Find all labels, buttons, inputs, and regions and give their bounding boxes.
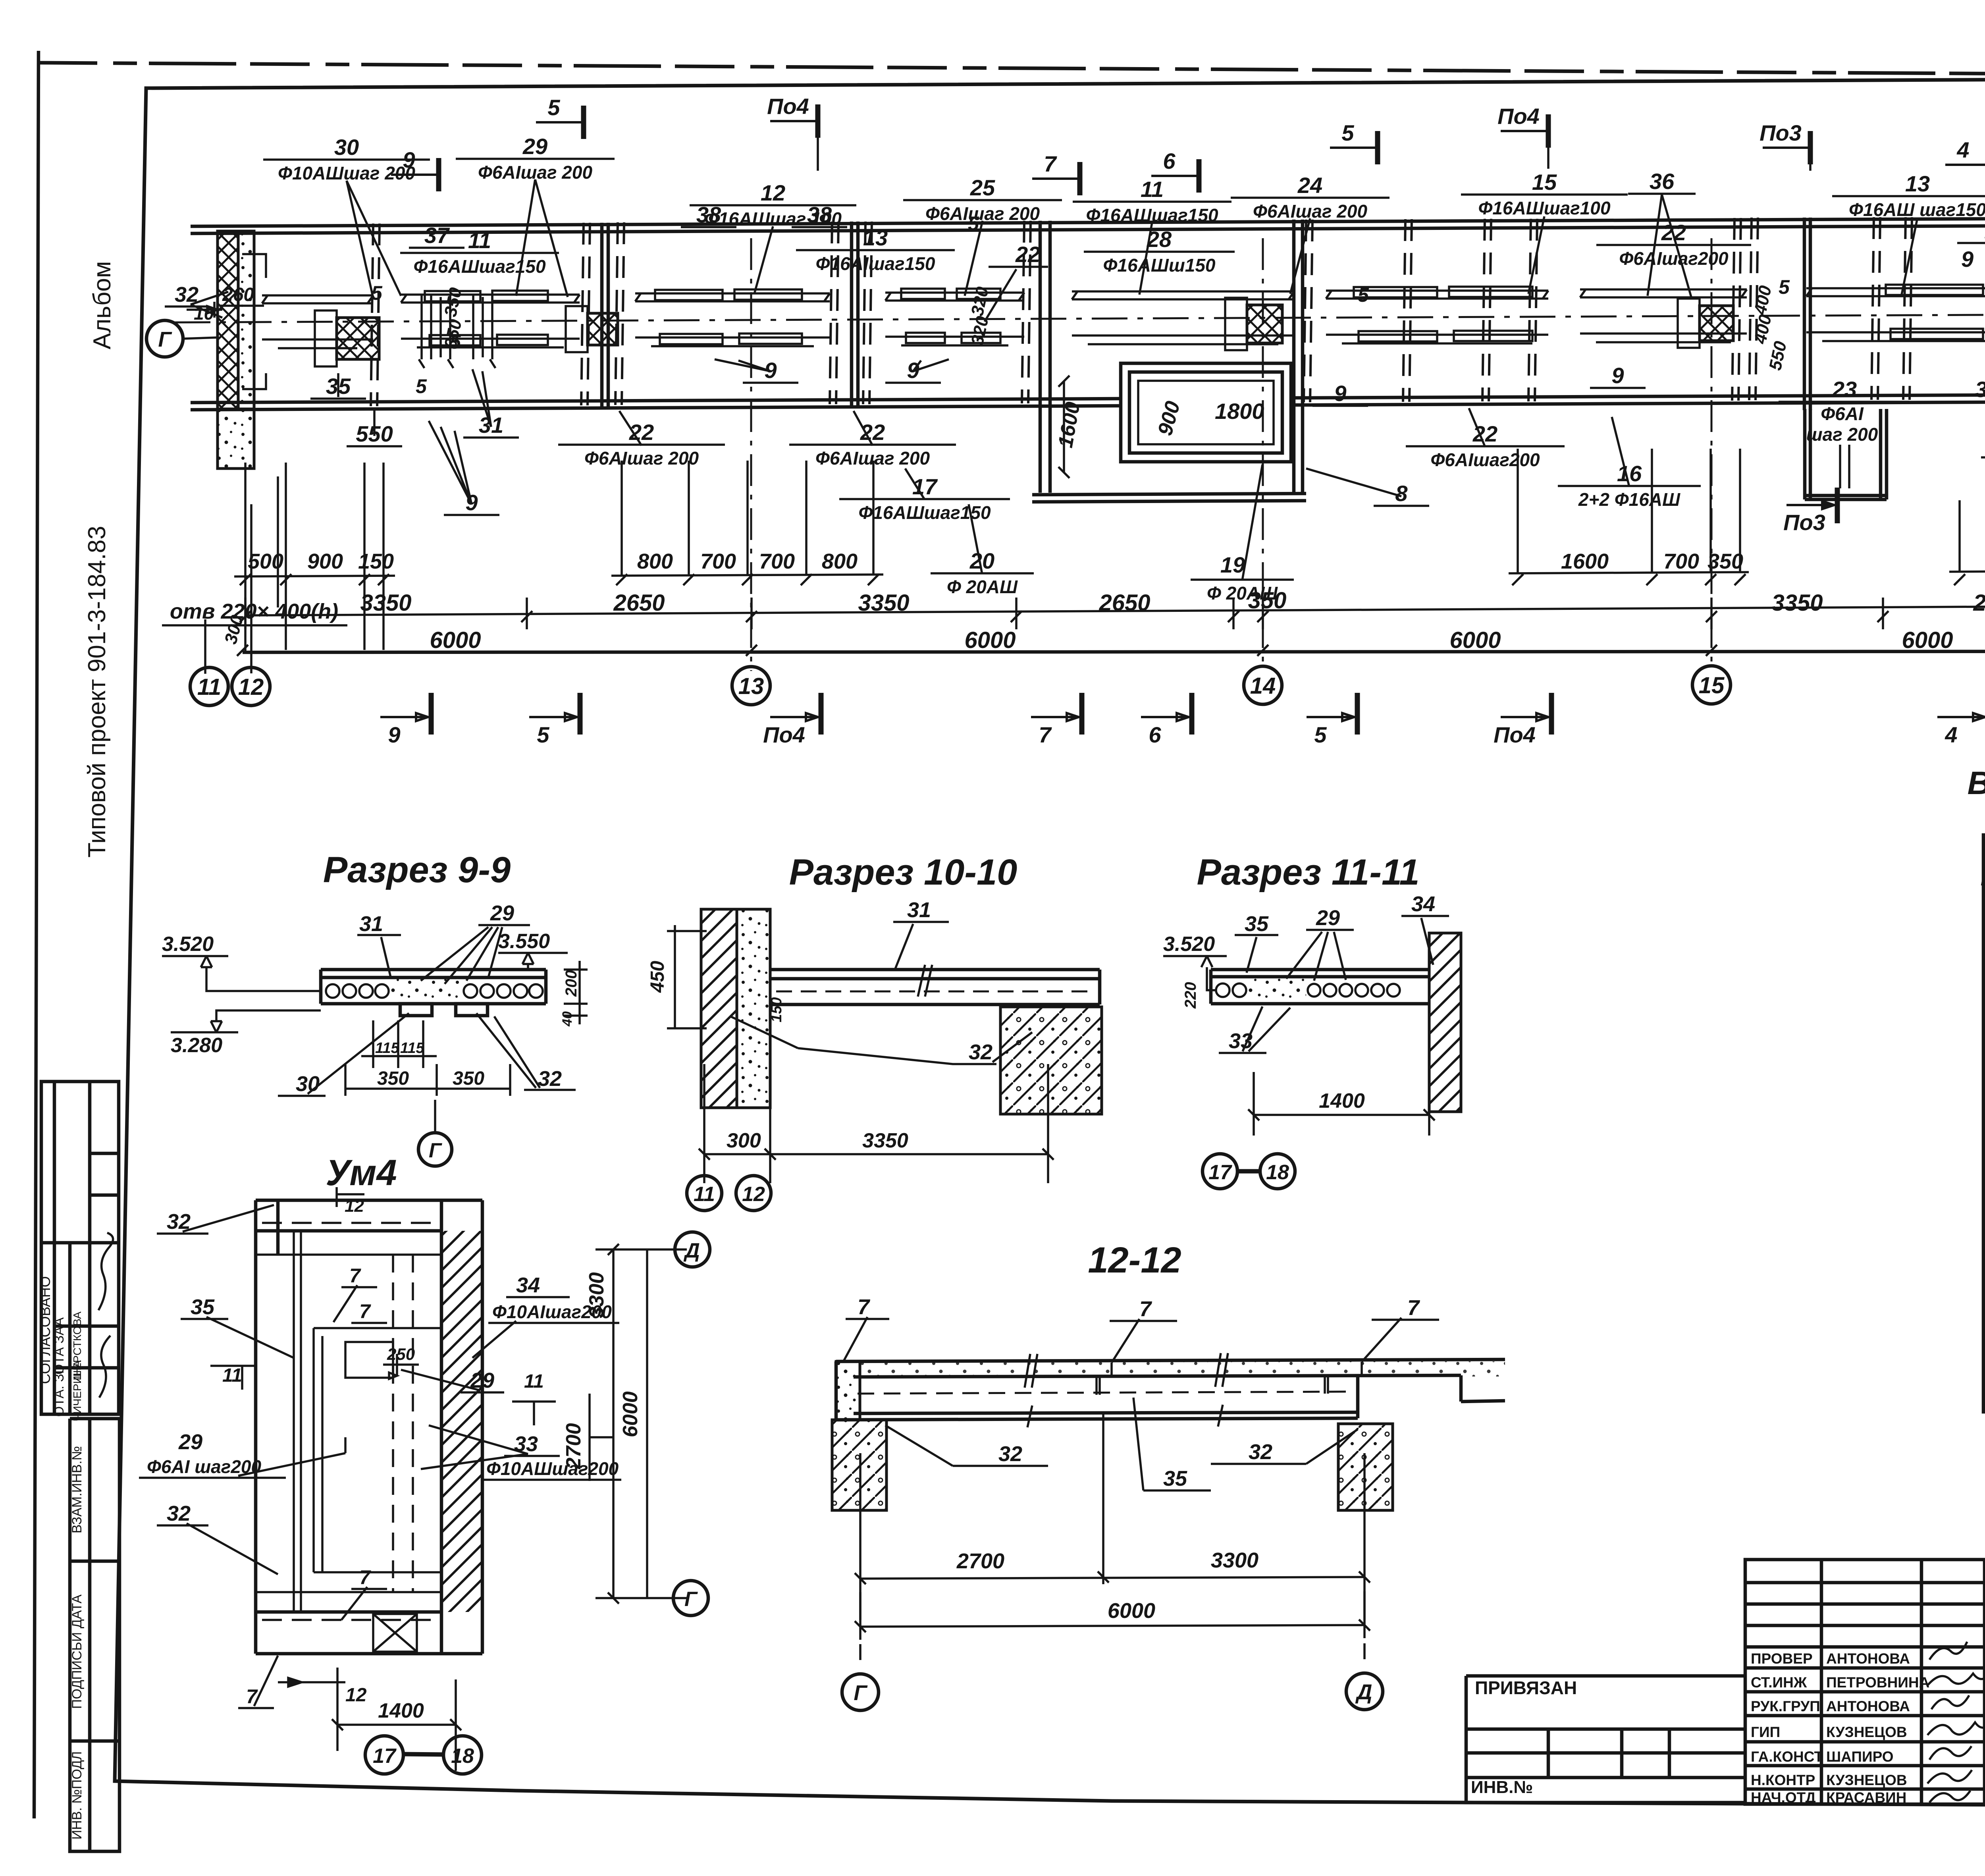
svg-text:15: 15 [1532, 170, 1557, 195]
svg-text:1400: 1400 [1319, 1089, 1365, 1112]
svg-text:КРАСАВИН: КРАСАВИН [1826, 1789, 1906, 1806]
svg-text:25: 25 [970, 175, 995, 200]
break lines 3290 [1304, 220, 1312, 402]
svg-text:Разрез 11-11: Разрез 11-11 [1197, 852, 1420, 893]
svg-text:4: 4 [1945, 722, 1957, 747]
svg-text:НАЧ.ОТД: НАЧ.ОТД [1751, 1789, 1816, 1806]
svg-text:2700: 2700 [956, 1549, 1004, 1573]
svg-text:Ф16АШ шаг150: Ф16АШ шаг150 [1849, 199, 1985, 220]
svg-text:2650: 2650 [1098, 590, 1150, 616]
svg-text:10: 10 [194, 303, 214, 324]
svg-text:КУЗНЕЦОВ: КУЗНЕЦОВ [1826, 1772, 1907, 1788]
break lines 1556 [615, 222, 624, 405]
svg-text:14: 14 [1250, 673, 1276, 699]
svg-text:5: 5 [416, 375, 427, 397]
level mark 3.550 [498, 953, 568, 970]
top section markers [536, 106, 584, 139]
svg-text:Ф 20АШ: Ф 20АШ [1207, 583, 1278, 603]
svg-text:Н.КОНТР: Н.КОНТР [1751, 1772, 1815, 1788]
svg-text:32: 32 [1249, 1440, 1272, 1464]
break lines 3740 [1482, 219, 1491, 401]
axis circle Г [418, 1133, 452, 1166]
svg-text:34: 34 [516, 1273, 540, 1297]
svg-text:300: 300 [727, 1129, 761, 1152]
scan left edge line [34, 51, 39, 1818]
svg-text:115: 115 [375, 1040, 399, 1057]
svg-text:7: 7 [1039, 722, 1052, 747]
column under slab right [1000, 1007, 1102, 1114]
svg-text:2650: 2650 [613, 590, 665, 616]
svg-text:Д: Д [683, 1239, 700, 1262]
support pads [400, 1004, 432, 1016]
rebar splice cluster 2260 [901, 289, 1000, 343]
svg-text:5: 5 [547, 95, 560, 120]
dimension guide verticals [244, 463, 247, 652]
svg-text:16: 16 [1617, 461, 1642, 486]
svg-text:РУК.ГРУП: РУК.ГРУП [1751, 1698, 1820, 1714]
bottom dims [278, 1668, 461, 1771]
svg-text:6: 6 [1149, 722, 1161, 747]
svg-text:Ф16АШш150: Ф16АШш150 [1103, 255, 1216, 276]
svg-text:11: 11 [222, 1365, 242, 1386]
center axis dash-dot [175, 312, 1985, 322]
break lines 4720 [1871, 217, 1880, 400]
svg-text:Разрез 10-10: Разрез 10-10 [789, 852, 1018, 893]
svg-text:ГИП: ГИП [1751, 1724, 1780, 1740]
rebar lines bay 1600-2090 [635, 293, 830, 346]
hollow cores left [326, 984, 543, 998]
svg-text:Ф16АIшаг150: Ф16АIшаг150 [816, 253, 935, 274]
left wall end [834, 1361, 838, 1420]
svg-text:ПРОВЕР: ПРОВЕР [1751, 1650, 1813, 1667]
break lines 940 [371, 224, 380, 406]
leader fan lines [429, 421, 472, 504]
wall plan outline [256, 1200, 482, 1654]
svg-text:13: 13 [863, 225, 888, 250]
rebar splice cluster 4740 [1886, 284, 1985, 339]
svg-text:11: 11 [197, 674, 221, 700]
right small dims 200/40 [564, 961, 588, 1024]
svg-text:35: 35 [191, 1295, 215, 1319]
svg-text:Г: Г [158, 328, 172, 351]
svg-text:12: 12 [742, 1183, 765, 1206]
svg-text:Ф 20АШ: Ф 20АШ [947, 576, 1018, 597]
svg-text:8: 8 [1395, 481, 1408, 506]
wall hatched [701, 909, 737, 1108]
svg-text:5: 5 [1341, 120, 1354, 145]
svg-text:800: 800 [822, 549, 858, 573]
svg-text:11: 11 [468, 228, 491, 253]
svg-text:3350: 3350 [858, 590, 909, 616]
dims [855, 1413, 1370, 1640]
svg-text:5: 5 [1358, 284, 1369, 306]
rebar lines bay 4550-5310 [1806, 288, 1985, 341]
svg-text:КУЗНЕЦОВ: КУЗНЕЦОВ [1826, 1724, 1907, 1740]
rebar lines bay 3980-4400 [1580, 289, 1747, 342]
svg-text:ИНВ. №ПОДЛ: ИНВ. №ПОДЛ [69, 1751, 85, 1840]
bar hooks [1097, 1376, 1328, 1395]
svg-text:17: 17 [373, 1745, 397, 1768]
level 3.520 [1163, 956, 1227, 990]
svg-text:32: 32 [969, 1040, 992, 1064]
svg-text:250: 250 [387, 1345, 415, 1363]
slab bottom chord right [1306, 393, 1985, 398]
rebar lines bay 2230-2580 [885, 293, 1024, 345]
svg-text:12: 12 [345, 1196, 364, 1216]
svg-text:Ф6АI: Ф6АI [1821, 403, 1864, 424]
svg-text:2650: 2650 [1973, 590, 1985, 616]
svg-text:31: 31 [359, 912, 383, 936]
svg-text:Ф6АIшаг200: Ф6АIшаг200 [1430, 449, 1540, 470]
svg-text:1800: 1800 [1215, 399, 1264, 424]
rebar lines bay 3340-3900 [1326, 291, 1548, 343]
wall lines 2620 [1040, 221, 1050, 493]
svg-text:5: 5 [450, 331, 461, 353]
right dimension column [590, 1244, 687, 1604]
svg-text:3.280: 3.280 [171, 1034, 222, 1057]
svg-text:5: 5 [537, 722, 549, 747]
svg-text:Г: Г [429, 1139, 442, 1162]
svg-text:2+2 Ф16АШ: 2+2 Ф16АШ [1578, 489, 1681, 510]
svg-text:11: 11 [1141, 177, 1164, 202]
svg-text:ШАПИРО: ШАПИРО [1826, 1749, 1894, 1765]
svg-text:ОТА ЗАА: ОТА ЗАА [52, 1317, 67, 1375]
slab with cores [1211, 970, 1429, 1004]
hairpin bar cluster [419, 295, 495, 368]
svg-text:40: 40 [560, 1011, 575, 1027]
dim 1400 [1248, 1020, 1435, 1136]
svg-text:350: 350 [377, 1068, 409, 1089]
svg-text:По4: По4 [1494, 722, 1536, 747]
svg-text:12: 12 [345, 1685, 367, 1706]
svg-text:СОГЛАСОВАНО: СОГЛАСОВАНО [37, 1276, 53, 1384]
svg-text:36: 36 [1975, 377, 1985, 402]
svg-text:350: 350 [453, 1068, 484, 1089]
svg-text:3.520: 3.520 [1163, 933, 1215, 956]
crosshatched column 3141 [1247, 305, 1282, 343]
svg-text:9: 9 [388, 722, 400, 747]
svg-text:ИНВ.№: ИНВ.№ [1471, 1778, 1533, 1797]
svg-text:32: 32 [538, 1067, 562, 1091]
svg-text:18: 18 [1266, 1161, 1289, 1184]
slab bottom chord left [191, 399, 1032, 403]
dimension row B [245, 604, 1985, 615]
svg-text:12: 12 [761, 180, 785, 205]
svg-text:12: 12 [238, 674, 264, 700]
svg-text:Ф6АIшаг 200: Ф6АIшаг 200 [584, 448, 699, 469]
svg-text:36: 36 [1650, 169, 1675, 194]
svg-text:11: 11 [694, 1183, 715, 1206]
crosshatched column 1480 [588, 313, 618, 345]
svg-text:34: 34 [1411, 892, 1435, 916]
svg-text:37: 37 [424, 223, 450, 248]
svg-text:9: 9 [403, 147, 415, 172]
svg-text:7: 7 [349, 1265, 361, 1287]
dim row 6000 [243, 651, 1985, 652]
svg-text:7: 7 [858, 1295, 871, 1319]
svg-text:ПЕТРОВНИНА: ПЕТРОВНИНА [1826, 1674, 1929, 1691]
svg-text:29: 29 [490, 901, 514, 925]
svg-text:13: 13 [738, 673, 764, 699]
slab top chord [191, 216, 1985, 226]
inventory table [70, 1419, 119, 1851]
svg-text:6000: 6000 [430, 627, 481, 653]
svg-text:29: 29 [178, 1430, 202, 1454]
wall lines 3259 [1294, 220, 1303, 494]
svg-text:Ф16АШшаг150: Ф16АШшаг150 [413, 256, 546, 277]
dimension row C (6000) [237, 645, 248, 656]
svg-text:Поз.: Поз. [1981, 867, 1985, 890]
svg-text:ПРИВЯЗАН: ПРИВЯЗАН [1475, 1677, 1577, 1698]
crosshatched column 4281 [1700, 306, 1733, 341]
svg-text:260: 260 [222, 284, 254, 305]
left wall section [218, 231, 266, 469]
axis circle Г left [146, 320, 183, 357]
svg-text:ВЗАМ.ИНВ.№: ВЗАМ.ИНВ.№ [69, 1446, 85, 1533]
wall lines 1516 [602, 223, 608, 407]
break lines 2580 [1022, 221, 1031, 403]
svg-text:700: 700 [700, 549, 736, 573]
svg-text:150: 150 [768, 997, 785, 1022]
svg-text:7: 7 [1044, 151, 1057, 176]
top dim 12 [337, 1187, 364, 1207]
svg-text:800: 800 [637, 549, 673, 573]
svg-text:7: 7 [359, 1300, 371, 1323]
signature scribbles [1927, 1642, 1985, 1803]
break marks [1025, 1353, 1228, 1427]
svg-text:ЧИЧЕРИНА: ЧИЧЕРИНА [71, 1360, 83, 1421]
svg-text:ГА.КОНСТ: ГА.КОНСТ [1751, 1749, 1823, 1765]
svg-text:200: 200 [563, 970, 580, 997]
bottom section markers [380, 693, 431, 735]
svg-text:6000: 6000 [1449, 627, 1501, 653]
svg-text:12-12: 12-12 [1088, 1240, 1181, 1280]
svg-text:7: 7 [1407, 1296, 1420, 1320]
bottom dims [699, 1064, 1054, 1183]
svg-text:Ф10АШшаг200: Ф10АШшаг200 [486, 1458, 619, 1479]
break lines 4800 [1903, 217, 1912, 400]
crosshatched column 848 [337, 318, 379, 359]
grid axis verticals [750, 238, 752, 671]
svg-text:32: 32 [167, 1502, 191, 1525]
svg-text:7: 7 [359, 1566, 371, 1589]
svg-text:Ум4: Ум4 [326, 1153, 397, 1193]
central signature table [1745, 1560, 1985, 1804]
svg-text:24: 24 [1297, 173, 1322, 198]
approval table [41, 1082, 119, 1414]
deep wall zone [1805, 409, 1887, 499]
level mark 3.520 [162, 956, 321, 991]
svg-text:ПОДПИСЬИ ДАТА: ПОДПИСЬИ ДАТА [69, 1595, 85, 1709]
rebar splice cluster 1060 [425, 291, 548, 345]
axis circles [687, 1176, 722, 1211]
svg-text:1400: 1400 [378, 1699, 424, 1722]
svg-text:АНТОНОВА: АНТОНОВА [1826, 1698, 1910, 1714]
right column [1338, 1424, 1393, 1510]
svg-text:22: 22 [1015, 242, 1040, 267]
signature-table labels [1751, 1650, 1929, 1806]
rebar splice cluster 1640 [655, 289, 802, 344]
rebar lines bay 1010-1460 [401, 295, 580, 347]
svg-text:29: 29 [1316, 906, 1340, 930]
rebar lines bay 660-940 [262, 295, 373, 348]
slab [770, 970, 1100, 1005]
left attach table [1466, 1676, 1745, 1803]
svg-text:По3: По3 [1760, 120, 1802, 145]
svg-text:3350: 3350 [360, 590, 411, 616]
svg-text:350: 350 [1707, 549, 1743, 573]
svg-text:Ф10АIшаг200: Ф10АIшаг200 [492, 1301, 612, 1322]
slab [836, 1359, 1505, 1420]
break lines 2180 [863, 222, 872, 404]
svg-text:отв 220× 400(h): отв 220× 400(h) [170, 600, 338, 623]
svg-text:38: 38 [696, 202, 721, 227]
mini dimension row A [234, 570, 1985, 576]
svg-text:19: 19 [1220, 552, 1245, 577]
svg-text:Г: Г [684, 1588, 698, 1611]
svg-text:6000: 6000 [1108, 1599, 1155, 1623]
bottom chord through window bay [1032, 398, 1306, 399]
middle monolith hatch [391, 978, 464, 1004]
svg-text:220: 220 [1182, 982, 1199, 1009]
svg-text:31: 31 [907, 898, 931, 922]
rebar lines bay 2700-3260 [1072, 291, 1294, 344]
svg-text:900: 900 [307, 549, 343, 573]
svg-text:Ф10АШшаг 200: Ф10АШшаг 200 [278, 163, 415, 183]
svg-text:23: 23 [1832, 377, 1857, 402]
svg-text:Альбом: Альбом [89, 261, 116, 349]
svg-text:5: 5 [1314, 722, 1327, 747]
svg-text:700: 700 [759, 549, 795, 573]
svg-text:3.520: 3.520 [162, 933, 214, 956]
svg-text:Д: Д [1355, 1680, 1372, 1704]
wall lines 2145 [852, 222, 858, 406]
svg-text:6000: 6000 [964, 627, 1016, 653]
svg-text:5: 5 [968, 212, 979, 235]
svg-text:1600: 1600 [1561, 549, 1609, 573]
svg-text:По4: По4 [1497, 104, 1540, 129]
break lines 3856 [1528, 219, 1537, 401]
svg-text:АНТОНОВА: АНТОНОВА [1826, 1650, 1910, 1667]
svg-text:9: 9 [1961, 247, 1973, 272]
svg-text:СТ.ИНЖ: СТ.ИНЖ [1751, 1674, 1807, 1691]
svg-text:шаг 200: шаг 200 [1806, 424, 1878, 445]
svg-text:18: 18 [451, 1745, 474, 1768]
svg-text:35: 35 [1163, 1467, 1187, 1490]
svg-text:450: 450 [647, 961, 668, 993]
break lines 4412 [1749, 218, 1758, 400]
svg-text:150: 150 [358, 549, 394, 573]
svg-text:6: 6 [1163, 148, 1176, 174]
svg-text:3.550: 3.550 [498, 930, 550, 953]
grid axis circles [190, 665, 1985, 706]
svg-text:4: 4 [1956, 137, 1969, 162]
signatures [98, 1233, 113, 1310]
svg-text:3350: 3350 [1771, 590, 1823, 616]
svg-text:Ведомость деталей: Ведомость деталей [1968, 765, 1985, 801]
svg-text:11: 11 [524, 1371, 544, 1392]
break lines 2096 [830, 222, 838, 404]
svg-text:30: 30 [296, 1072, 320, 1096]
lower dims 115 115 [345, 1020, 510, 1096]
svg-text:29: 29 [522, 134, 547, 159]
level mark 3.280 [171, 1010, 321, 1032]
svg-text:9: 9 [1611, 363, 1624, 388]
svg-text:ОТА. ЗГ: ОТА. ЗГ [52, 1367, 67, 1417]
svg-text:3300: 3300 [1211, 1548, 1258, 1572]
svg-text:115: 115 [400, 1040, 424, 1057]
svg-text:3350: 3350 [862, 1129, 908, 1152]
svg-text:Г: Г [854, 1681, 868, 1705]
svg-text:По4: По4 [763, 722, 805, 747]
slab outline [321, 970, 546, 1004]
top dashed scan border [38, 63, 1985, 77]
svg-text:7: 7 [1139, 1297, 1152, 1321]
svg-text:По4: По4 [767, 94, 809, 119]
left column [832, 1420, 887, 1510]
svg-text:700: 700 [1663, 549, 1699, 573]
svg-text:7: 7 [246, 1685, 258, 1708]
hatch strip [441, 1231, 482, 1612]
break lines 4369 [1732, 218, 1741, 401]
svg-text:30: 30 [334, 135, 359, 160]
axis circles [860, 1643, 1364, 1660]
svg-text:6000: 6000 [619, 1391, 642, 1437]
svg-text:15: 15 [1699, 673, 1725, 698]
window opening [1121, 363, 1291, 462]
svg-text:22: 22 [860, 420, 885, 445]
break lines 3540 [1403, 219, 1412, 402]
svg-text:Типовой проект 901-3-184.83: Типовой проект 901-3-184.83 [83, 526, 111, 858]
svg-text:35: 35 [1245, 912, 1269, 936]
rebar splice cluster 3400 [1354, 287, 1532, 341]
svg-text:6000: 6000 [1902, 627, 1953, 653]
svg-text:Ф6АIшаг200: Ф6АIшаг200 [1619, 248, 1729, 269]
vert dim 450 [667, 925, 707, 1028]
svg-text:32: 32 [998, 1442, 1022, 1466]
svg-text:Ф16АШшаг100: Ф16АШшаг100 [1478, 198, 1611, 218]
break lines 1470 [581, 223, 590, 405]
svg-text:Ф6АIшаг 200: Ф6АIшаг 200 [815, 448, 930, 469]
inner structure [256, 1223, 441, 1652]
svg-text:9: 9 [1334, 381, 1346, 406]
svg-text:13: 13 [1905, 171, 1930, 196]
svg-text:По3: По3 [1783, 510, 1825, 535]
right wall [1429, 933, 1461, 1112]
wall lines 4545 [1804, 218, 1810, 410]
svg-text:38: 38 [807, 202, 832, 227]
deep bay bottom [1032, 494, 1306, 495]
axis circles 17-18 [1203, 1154, 1237, 1189]
section marker По3 bottom [1786, 488, 1837, 523]
svg-text:Разрез 9-9: Разрез 9-9 [323, 850, 511, 890]
svg-text:5: 5 [1779, 276, 1790, 298]
svg-text:17: 17 [1208, 1161, 1232, 1184]
